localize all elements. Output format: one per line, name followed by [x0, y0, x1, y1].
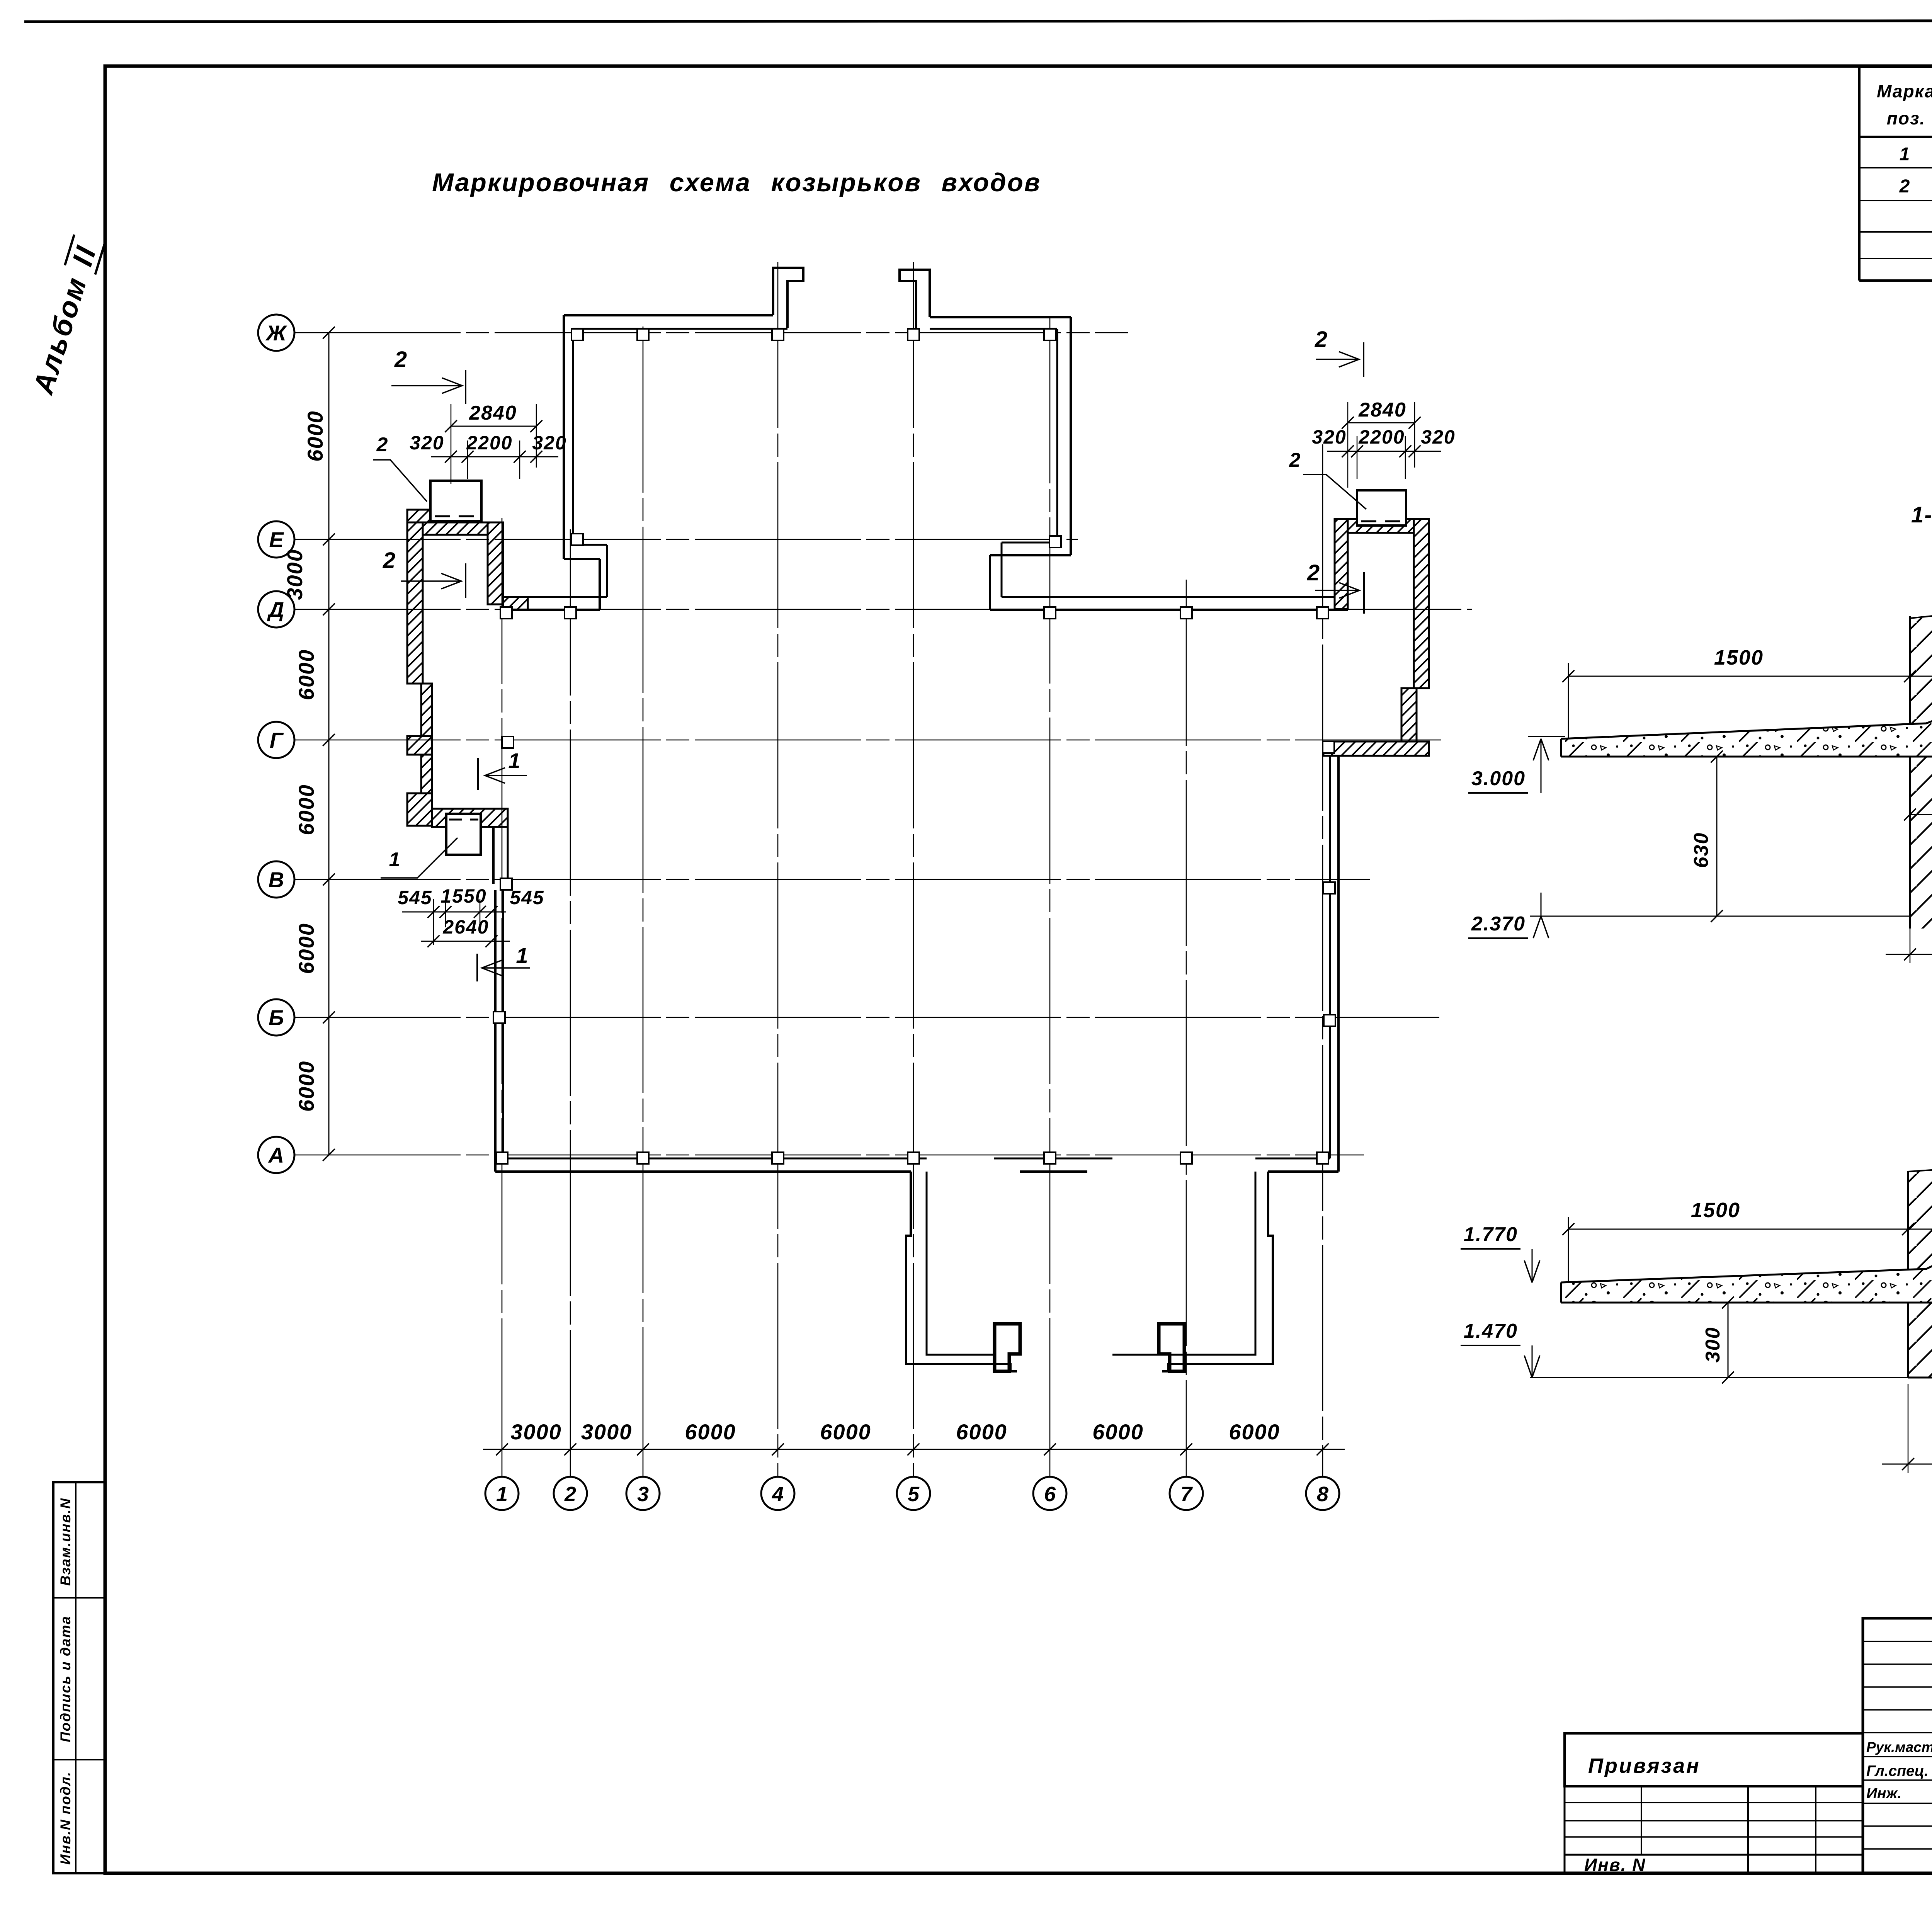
svg-text:5: 5	[908, 1483, 920, 1506]
specification table	[1859, 67, 1932, 281]
column square 1664,866	[637, 329, 649, 340]
axis circle 1	[485, 1477, 519, 1510]
svg-text:320: 320	[1421, 426, 1455, 448]
dim tick	[1180, 1443, 1192, 1455]
svg-text:3: 3	[637, 1483, 649, 1506]
2-2 dims 340 and 300	[1908, 1203, 1932, 1235]
right stair pocket below axis А	[1112, 1172, 1273, 1371]
right wall below Г	[1330, 756, 1338, 1172]
svg-text:А: А	[268, 1143, 284, 1167]
2-2 wall hatched	[1908, 1171, 1932, 1384]
column square 1292,2633	[493, 1012, 505, 1023]
svg-text:6: 6	[1044, 1483, 1056, 1506]
column square 2364,866	[908, 329, 919, 340]
svg-text:Б: Б	[269, 1005, 284, 1030]
axis circle В	[258, 861, 294, 898]
left dim label 6000	[294, 923, 318, 974]
block B right wall	[1057, 317, 1071, 555]
block A top wall	[564, 315, 787, 329]
svg-text:1- 1: 1- 1	[1911, 502, 1932, 527]
svg-text:3000: 3000	[282, 549, 307, 600]
1-1 wall break mark	[1910, 604, 1932, 622]
left stair pocket below axis А	[906, 1172, 1017, 1371]
bottom dim label 3000	[581, 1420, 633, 1444]
canopy symbol over door at axis 4	[773, 268, 803, 328]
svg-text:2: 2	[564, 1483, 576, 1506]
column square 3070,2997	[1180, 1152, 1192, 1164]
column square 2717,1586	[1044, 607, 1056, 619]
svg-text:Взам.инв.N: Взам.инв.N	[58, 1498, 73, 1586]
column square 2013,2997	[772, 1152, 784, 1164]
table row 2: KV 18.22-T	[1899, 174, 1932, 197]
svg-text:1.470: 1.470	[1464, 1320, 1518, 1342]
wall on axis Д (right)	[990, 597, 1348, 610]
top-right canopy dimension 2840	[1342, 399, 1420, 488]
column square 1310,2288	[500, 878, 512, 890]
bottom dim label 3000	[510, 1420, 562, 1444]
canopy 3 box (axis В entrance)	[446, 814, 481, 855]
svg-text:2.370: 2.370	[1471, 913, 1526, 935]
bottom dim label 6000	[956, 1420, 1007, 1444]
svg-text:545: 545	[510, 887, 544, 908]
svg-text:6000: 6000	[294, 784, 318, 835]
svg-text:2840: 2840	[1358, 399, 1406, 421]
svg-text:Маркировочная схема козырько: Маркировочная схема козырьков входов	[432, 168, 1041, 197]
svg-text:3.000: 3.000	[1471, 767, 1526, 790]
column square 1314,1921	[502, 736, 514, 748]
svg-text:630: 630	[1690, 832, 1713, 868]
svg-text:Рук.маст.: Рук.маст.	[1866, 1739, 1932, 1755]
svg-text:4: 4	[772, 1483, 784, 1506]
1-1 dim 380	[1886, 929, 1932, 986]
table row 1: KV 18.16-T	[1900, 142, 1932, 165]
svg-text:Инв. N: Инв. N	[1584, 1855, 1646, 1875]
svg-text:Инж.: Инж.	[1866, 1785, 1901, 1802]
album label Альбом II	[27, 235, 105, 398]
column square 2364,2997	[908, 1152, 919, 1164]
sheet top edge line	[24, 20, 1932, 22]
Инв N label	[1584, 1855, 1646, 1875]
axis line А	[294, 1155, 1364, 1156]
2-2 wall break mark	[1908, 1156, 1932, 1175]
svg-text:Привязан: Привязан	[1588, 1754, 1701, 1777]
2-2 dim 1500	[1562, 1199, 1914, 1282]
dim tick	[323, 734, 335, 746]
column square 1299,2997	[496, 1152, 508, 1164]
axis line 5	[913, 262, 914, 1476]
column square 3441,2641	[1324, 1015, 1335, 1026]
dim tick	[496, 1443, 508, 1455]
1-1 dim 200	[1910, 649, 1932, 682]
svg-text:320: 320	[1312, 426, 1346, 448]
axis circle 8	[1306, 1477, 1339, 1510]
svg-text:2: 2	[1315, 327, 1328, 352]
svg-text:6000: 6000	[294, 1061, 318, 1112]
corridor wall on axis Д (left)	[503, 597, 607, 610]
axis circle 2	[554, 1477, 587, 1510]
svg-text:2: 2	[1899, 176, 1911, 197]
section mark 2 (top left, above canopy 1)	[391, 347, 466, 404]
svg-text:1500: 1500	[1691, 1199, 1740, 1222]
svg-text:6000: 6000	[1092, 1420, 1144, 1444]
svg-text:6000: 6000	[294, 923, 318, 974]
column square 3423,2997	[1317, 1152, 1328, 1164]
axis line 3	[643, 327, 644, 1476]
1-1 canopy slab	[1561, 719, 1932, 817]
dim tick	[323, 1011, 335, 1023]
section mark 1 (upper, near axis Г)	[478, 748, 527, 790]
canopy 1 box (top-left entrance)	[430, 481, 481, 521]
dim tick	[323, 533, 335, 545]
table headers	[1877, 77, 1932, 128]
axis line Д	[294, 609, 1472, 610]
block A bottom jog to corridor	[564, 545, 607, 610]
axis circle Б	[258, 999, 294, 1036]
label Инв.N подл.	[58, 1771, 73, 1865]
column square 2013,866	[772, 329, 784, 340]
canopy 2 box (right entrance)	[1357, 490, 1406, 526]
svg-text:1: 1	[496, 1483, 508, 1506]
axis circle 7	[1170, 1477, 1203, 1510]
dim tick	[323, 327, 335, 338]
top-left canopy dimension 2840	[445, 402, 542, 484]
axis line В	[294, 879, 1370, 880]
svg-text:6000: 6000	[294, 649, 318, 701]
svg-text:1: 1	[508, 748, 521, 773]
svg-text:6000: 6000	[956, 1420, 1007, 1444]
svg-text:В: В	[269, 867, 284, 892]
axis circle Д	[258, 591, 294, 628]
column square 3440,2298	[1323, 882, 1335, 894]
bottom dim label 6000	[820, 1420, 871, 1444]
bottom dim label 6000	[1229, 1420, 1280, 1444]
leader 1 for canopy 3	[381, 838, 457, 878]
left dim label 6000	[294, 649, 318, 701]
axis line 6	[1049, 317, 1051, 1476]
axis В canopy dims 545 1550 545	[398, 885, 544, 945]
title block outer box	[1863, 1618, 1932, 1873]
label Взам.инв.N	[58, 1498, 73, 1586]
axis circle Ж	[258, 315, 294, 351]
axis line 2	[570, 529, 571, 1476]
svg-text:6000: 6000	[1229, 1420, 1280, 1444]
dim tick	[323, 1149, 335, 1161]
svg-text:320: 320	[410, 432, 444, 454]
2-2 elevation 1.470	[1461, 1320, 1540, 1378]
svg-text:320: 320	[532, 432, 566, 454]
column square 1664,2997	[637, 1152, 649, 1164]
hatched wall on axis Г (right)	[1323, 742, 1429, 756]
axis circle 3	[626, 1477, 660, 1510]
svg-text:6000: 6000	[685, 1420, 736, 1444]
block B top wall	[930, 317, 1071, 329]
column square 1494,1396	[571, 534, 583, 545]
dim tick	[323, 603, 335, 615]
svg-text:Д: Д	[267, 597, 284, 622]
axis circle Е	[258, 521, 294, 558]
top-left canopy dims 320 2200 320	[410, 432, 566, 479]
1-1 wall hatched	[1910, 616, 1932, 929]
axis line 4	[777, 262, 779, 1476]
svg-text:Инв.N подл.: Инв.N подл.	[58, 1771, 73, 1865]
column square 3438,1934	[1323, 742, 1334, 753]
column square 2731,1402	[1049, 536, 1061, 548]
svg-text:Гл.спец.: Гл.спец.	[1866, 1763, 1929, 1779]
axis line Е	[294, 539, 1078, 540]
svg-text:1: 1	[516, 943, 529, 968]
axis В canopy dim 2640	[421, 916, 510, 947]
svg-text:Подпись и дата: Подпись и дата	[58, 1616, 73, 1742]
svg-text:поз.: поз.	[1887, 108, 1925, 128]
left margin box column	[53, 1482, 105, 1873]
bottom dim label 6000	[685, 1420, 736, 1444]
svg-text:1: 1	[389, 849, 401, 871]
axis circle А	[258, 1137, 294, 1173]
2-2 dim 640	[1882, 1384, 1932, 1473]
dim tick	[564, 1443, 576, 1455]
signature table grid	[1863, 1618, 1932, 1873]
top-right canopy dims 320 2200 320	[1312, 426, 1455, 479]
dim tick	[637, 1443, 649, 1455]
1-1 elevation 2.370	[1468, 893, 1549, 938]
axis line Г	[294, 740, 1441, 741]
svg-text:2: 2	[1289, 449, 1301, 471]
column square 1476,1586	[565, 607, 576, 619]
column square 2717,2997	[1044, 1152, 1056, 1164]
left entrance vestibule hatched walls	[407, 510, 528, 827]
plan title	[432, 168, 1041, 197]
signature row Инж. Галкина	[1866, 1783, 1932, 1802]
svg-text:7: 7	[1180, 1483, 1193, 1506]
svg-text:2: 2	[1307, 560, 1320, 585]
left dim label 6000	[303, 410, 327, 462]
1-1 dims 340 and 40	[1904, 757, 1932, 823]
1-1 dim 630	[1690, 750, 1723, 922]
left dim label 6000	[294, 784, 318, 835]
svg-text:Марка: Марка	[1877, 81, 1932, 101]
section 1-1 title	[1911, 502, 1932, 527]
signature row Рук.маст Тюликов	[1866, 1737, 1932, 1756]
small table below privyazan	[1565, 1786, 1863, 1873]
column square 1494,866	[571, 329, 583, 340]
axis circle 6	[1033, 1477, 1066, 1510]
axis line Ж	[294, 332, 1128, 333]
1-1 dim 1500	[1562, 646, 1916, 739]
axis line 1	[502, 518, 503, 1476]
right entrance vestibule hatched walls	[1335, 519, 1429, 742]
dim tick	[1316, 1443, 1328, 1455]
dim tick	[907, 1443, 919, 1455]
2-2 dim 300 vertical	[1702, 1296, 1734, 1383]
svg-text:1500: 1500	[1714, 646, 1764, 669]
svg-text:1.770: 1.770	[1464, 1223, 1518, 1246]
2-2 ground line	[1530, 1377, 1908, 1378]
canopy symbol over door at axis 5	[900, 270, 930, 328]
2-2 canopy slab	[1561, 1264, 1932, 1303]
bottom wall on axis А	[495, 1158, 1338, 1172]
svg-text:300: 300	[1702, 1327, 1724, 1363]
left dim label 3000	[282, 549, 307, 600]
right stair pocket island	[1159, 1324, 1184, 1371]
signature row Гл.спец. Елкин	[1866, 1761, 1932, 1780]
column square 3070,1586	[1180, 607, 1192, 619]
svg-text:Ж: Ж	[265, 321, 287, 345]
dim tick	[1044, 1443, 1056, 1455]
svg-text:6000: 6000	[303, 410, 327, 462]
leader 2 for canopy 1	[373, 434, 427, 502]
column square 2717,866	[1044, 329, 1056, 340]
svg-text:2640: 2640	[442, 916, 489, 938]
section mark 1 (lower, below axis В)	[477, 943, 530, 981]
svg-text:2: 2	[376, 434, 389, 456]
axis circle 4	[761, 1477, 794, 1510]
svg-text:3000: 3000	[581, 1420, 633, 1444]
svg-text:Е: Е	[269, 527, 284, 552]
2-2 elevation 1.770	[1461, 1223, 1540, 1282]
section mark 2 (left vestibule)	[383, 548, 466, 598]
block A left wall	[564, 315, 573, 559]
dim tick	[772, 1443, 784, 1455]
column square 1310,1586	[500, 607, 512, 619]
left stair pocket island	[995, 1324, 1020, 1371]
svg-text:6000: 6000	[820, 1420, 871, 1444]
axis line 8	[1322, 444, 1323, 1476]
left dimension chain line	[328, 333, 330, 1155]
svg-text:2: 2	[383, 548, 396, 573]
block B jog to axis Д wall	[990, 543, 1071, 610]
svg-text:545: 545	[398, 887, 432, 908]
privyazan box	[1565, 1733, 1863, 1786]
svg-text:2840: 2840	[469, 402, 517, 424]
svg-text:2200: 2200	[1358, 426, 1405, 448]
svg-text:8: 8	[1317, 1483, 1328, 1506]
svg-text:3000: 3000	[510, 1420, 562, 1444]
column square 3423,1586	[1317, 607, 1328, 619]
svg-text:1: 1	[1900, 144, 1911, 165]
1-1 elevation 3.000	[1468, 736, 1565, 793]
axis line Б	[294, 1017, 1439, 1018]
section mark 2 (top right)	[1315, 327, 1364, 377]
axis circle Г	[258, 722, 294, 758]
svg-text:2: 2	[394, 347, 408, 372]
1-1 ground line	[1530, 916, 1910, 917]
label Подпись и дата	[58, 1616, 73, 1742]
dim tick	[323, 873, 335, 885]
bottom dim label 6000	[1092, 1420, 1144, 1444]
svg-text:Г: Г	[270, 728, 284, 752]
section mark 2 (right vestibule)	[1307, 560, 1364, 614]
left hall wall (axis 1)	[493, 827, 508, 1172]
axis circle 5	[897, 1477, 930, 1510]
bottom dimension chain line	[483, 1449, 1345, 1450]
axis line 7	[1186, 580, 1187, 1476]
leader 2 for canopy 2	[1289, 449, 1366, 509]
left dim label 6000	[294, 1061, 318, 1112]
